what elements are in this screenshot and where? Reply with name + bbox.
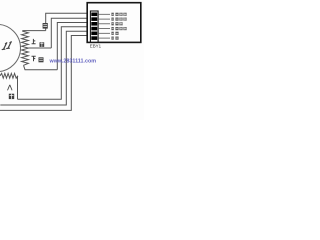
wire W1 black net xyxy=(46,13,87,30)
wire W3 vertical to connector xyxy=(57,23,87,70)
label ren (A) xyxy=(8,85,13,91)
label red (hong) xyxy=(40,42,45,47)
wire W2 red tap run xyxy=(28,47,51,49)
motor M1 circle xyxy=(0,24,21,71)
pin 6 label xyxy=(111,37,118,40)
pin 3 stub xyxy=(98,23,110,25)
label black wire (hei) xyxy=(43,23,48,29)
wire W6 bottom run and vertical to connector xyxy=(0,36,87,111)
pin 3 xyxy=(91,22,97,26)
pin 2 stub xyxy=(98,18,110,20)
svg-text:www.2831111.com: www.2831111.com xyxy=(49,59,97,65)
wire W4 bottom run and vertical to connector xyxy=(18,27,88,99)
wire R1 right end down xyxy=(17,76,19,99)
connector box outline xyxy=(87,3,141,43)
wire W5 bottom run and vertical to connector xyxy=(0,31,87,105)
pin 5 stub xyxy=(98,32,110,34)
pin 5 xyxy=(91,32,97,36)
pin 1 xyxy=(91,13,97,17)
motor label 11 (italic strokes) xyxy=(2,42,11,50)
pin 4 label xyxy=(111,27,126,30)
pin 4 xyxy=(91,27,97,31)
pin 6 stub xyxy=(98,37,110,39)
label orange (cheng) xyxy=(9,94,14,99)
connector strip XS1 xyxy=(90,11,98,42)
wire pot top run xyxy=(22,30,46,32)
label lower (xia) xyxy=(32,56,36,61)
pin 3 label xyxy=(111,22,122,25)
potentiometer RP1 zigzag xyxy=(22,31,29,65)
pin 6 xyxy=(91,36,97,40)
label upper (shang) xyxy=(32,39,36,44)
resistor R1 horizontal zigzag xyxy=(0,73,18,78)
pin 2 label xyxy=(111,18,126,21)
pin 5 label xyxy=(111,32,118,35)
svg-text:EBY1: EBY1 xyxy=(90,43,102,48)
label blue (lan) xyxy=(39,57,44,62)
pin 1 label xyxy=(111,13,126,16)
pin 4 stub xyxy=(98,28,110,30)
pin 2 xyxy=(91,17,97,21)
wire pot bottom run xyxy=(24,65,58,69)
wire W2 vertical to connector xyxy=(51,18,87,48)
pin 1 stub xyxy=(98,13,110,15)
